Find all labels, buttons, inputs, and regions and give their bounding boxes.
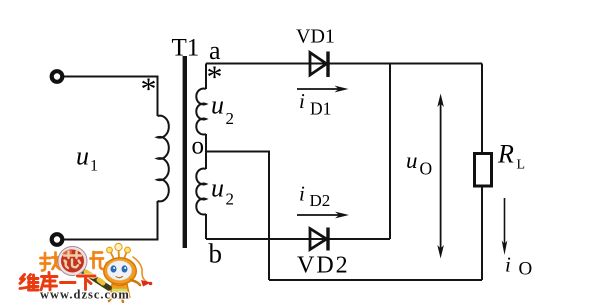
svg-text:u: u — [211, 91, 224, 120]
svg-text:o: o — [192, 133, 205, 160]
svg-text:D1: D1 — [310, 99, 331, 119]
svg-text:u: u — [406, 148, 418, 173]
svg-text:2: 2 — [226, 190, 235, 209]
svg-text:i: i — [299, 89, 305, 113]
svg-text:T1: T1 — [172, 35, 200, 62]
svg-text:VD2: VD2 — [297, 253, 350, 279]
svg-text:www.dzsc.com: www.dzsc.com — [40, 288, 130, 302]
svg-text:i: i — [299, 182, 305, 206]
svg-text:b: b — [209, 239, 223, 269]
svg-text:O: O — [420, 159, 433, 179]
svg-text:O: O — [519, 259, 533, 280]
svg-text:1: 1 — [90, 158, 98, 175]
svg-text:D2: D2 — [310, 191, 331, 210]
svg-text:u: u — [76, 142, 89, 171]
svg-text:L: L — [517, 158, 526, 173]
svg-text:2: 2 — [226, 109, 235, 128]
svg-text:*: * — [207, 58, 223, 94]
svg-text:u: u — [211, 174, 224, 203]
svg-text:*: * — [141, 70, 157, 106]
svg-text:R: R — [497, 140, 514, 169]
svg-text:i: i — [505, 253, 511, 277]
svg-text:VD1: VD1 — [296, 26, 335, 48]
